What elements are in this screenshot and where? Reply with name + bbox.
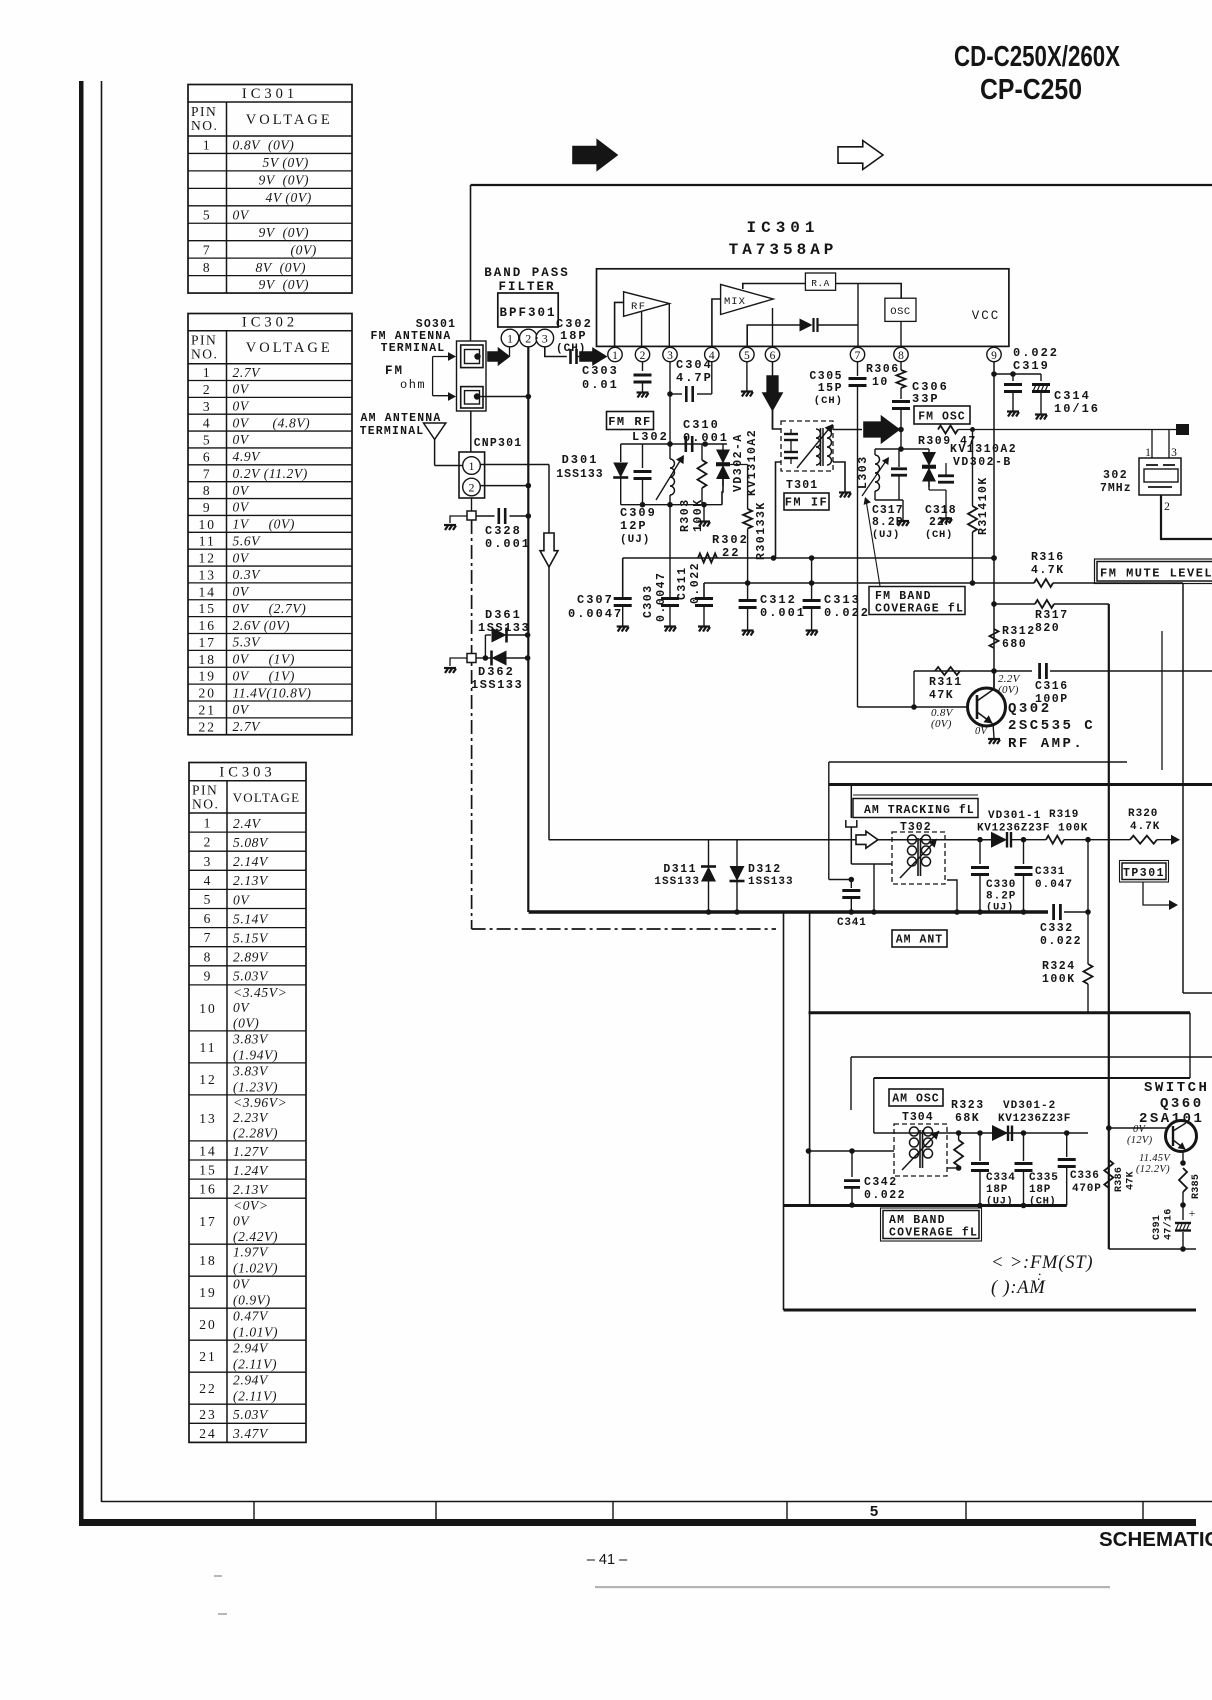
shield pad square D362 row xyxy=(467,654,476,663)
wire shield stub into T302 xyxy=(851,863,892,865)
resistor R314 xyxy=(970,427,975,432)
svg-text:0V: 0V xyxy=(233,207,250,222)
svg-text:8: 8 xyxy=(204,949,213,964)
wire FM out row y762 xyxy=(829,761,1127,763)
svg-text:R303: R303 xyxy=(679,498,692,532)
svg-text:7MHz: 7MHz xyxy=(1100,482,1132,495)
AM shield stub xyxy=(850,785,852,819)
svg-text:680: 680 xyxy=(1002,638,1027,651)
svg-text:33P: 33P xyxy=(912,392,940,406)
svg-text:47/16: 47/16 xyxy=(1163,1208,1175,1240)
svg-text:3.83V: 3.83V xyxy=(232,1063,269,1078)
svg-text:C341: C341 xyxy=(837,917,867,929)
svg-text:0V (2.7V): 0V (2.7V) xyxy=(233,601,307,616)
shield pad square C328 row xyxy=(467,511,476,520)
wire pin7 down through C305 xyxy=(857,362,859,376)
capacitor C313 xyxy=(811,558,813,599)
svg-text:2.89V: 2.89V xyxy=(233,950,269,965)
svg-text:1.97V: 1.97V xyxy=(233,1245,269,1260)
wire y762 down to AM C341 row xyxy=(828,762,830,880)
svg-text:24: 24 xyxy=(199,1426,217,1441)
svg-text:C335: C335 xyxy=(1029,1172,1059,1184)
svg-text:FM MUTE LEVEL: FM MUTE LEVEL xyxy=(1100,567,1212,581)
svg-text:0.022: 0.022 xyxy=(1013,346,1059,360)
AM OSC label box xyxy=(889,1089,943,1106)
svg-text:8.2P: 8.2P xyxy=(872,516,904,529)
resistor R306 on pin8 xyxy=(900,362,902,370)
AM OSC outer box lines xyxy=(851,1056,1212,1058)
svg-text:10: 10 xyxy=(199,1001,217,1016)
resistor R317 xyxy=(994,603,1035,605)
resistor R301 xyxy=(747,465,749,510)
wire T301 right to ground xyxy=(833,462,845,492)
wire CNP301 pin1 to AM drop line xyxy=(480,464,549,466)
dash-dot shield line horizontal xyxy=(472,928,776,930)
resistor R386 xyxy=(1104,1160,1113,1188)
FM antenna connector jack 1 xyxy=(461,345,483,368)
transistor Q360 xyxy=(1166,1121,1197,1152)
svg-text:14: 14 xyxy=(199,1143,217,1158)
svg-text:2.13V: 2.13V xyxy=(233,1182,269,1197)
svg-text:6: 6 xyxy=(770,350,776,362)
svg-text:0V: 0V xyxy=(233,483,250,498)
svg-text:0.022: 0.022 xyxy=(689,562,702,604)
capacitor C330 xyxy=(979,840,981,864)
svg-text:2.6V (0V): 2.6V (0V) xyxy=(233,618,291,633)
svg-text:9: 9 xyxy=(204,968,213,983)
svg-text:1SS133: 1SS133 xyxy=(748,876,794,888)
svg-text:C304: C304 xyxy=(676,358,713,372)
svg-text:5: 5 xyxy=(203,433,212,448)
arrow FM jack1 to BPF pin1 xyxy=(488,349,509,365)
leader TP301 to rail xyxy=(1143,882,1172,905)
capacitor C341 xyxy=(850,880,852,889)
svg-text:1.24V: 1.24V xyxy=(233,1163,269,1178)
svg-text:Q360: Q360 xyxy=(1160,1096,1204,1112)
svg-text:11: 11 xyxy=(199,534,216,549)
svg-text:1SS133: 1SS133 xyxy=(471,678,523,692)
svg-text:R30133K: R30133K xyxy=(755,501,768,560)
schematic bottom boundary xyxy=(784,1309,1197,1312)
svg-text:7: 7 xyxy=(203,466,212,481)
wire Q302 emitter to ground xyxy=(993,723,994,738)
svg-text:0V: 0V xyxy=(233,500,250,515)
svg-text:3.83V: 3.83V xyxy=(232,1031,269,1046)
wire pin3 down xyxy=(669,362,671,444)
FM MUTE LEVEL label box xyxy=(1097,562,1212,582)
svg-text:100K: 100K xyxy=(692,498,705,532)
svg-text:9V (0V): 9V (0V) xyxy=(259,173,310,188)
AM block bottom boundary xyxy=(809,1011,1191,1014)
svg-text:(0V): (0V) xyxy=(233,1016,259,1031)
svg-text:C342: C342 xyxy=(864,1176,898,1189)
svg-text:TP301: TP301 xyxy=(1123,867,1165,880)
svg-text:CD-C250X/260X: CD-C250X/260X xyxy=(954,41,1121,73)
svg-text:CP-C250: CP-C250 xyxy=(980,74,1082,106)
svg-text:0V: 0V xyxy=(233,702,250,717)
svg-text:RF: RF xyxy=(631,301,647,313)
op-amp RF block inside IC301 xyxy=(624,292,670,317)
svg-text:13: 13 xyxy=(199,567,217,582)
wire FM connector to CNP301 xyxy=(470,411,472,452)
switch bottom wire xyxy=(1109,1248,1196,1250)
svg-text:C313: C313 xyxy=(824,593,861,607)
ground at C328 pad xyxy=(444,525,456,530)
svg-text:470P: 470P xyxy=(1072,1183,1102,1195)
wire T304 output row xyxy=(874,1132,959,1134)
svg-text:R31410K: R31410K xyxy=(977,476,990,535)
page border thick bottom xyxy=(79,1519,1196,1526)
svg-text:0V: 0V xyxy=(233,398,250,413)
svg-text:1: 1 xyxy=(507,332,513,346)
wire R385 to C391 xyxy=(1182,1192,1184,1205)
svg-text:23: 23 xyxy=(199,1407,217,1422)
svg-text:T304: T304 xyxy=(902,1111,934,1124)
svg-text:IC303: IC303 xyxy=(219,765,275,781)
capacitor C302 xyxy=(571,349,577,364)
AM block top boundary xyxy=(829,783,1212,786)
svg-text:VCC: VCC xyxy=(972,309,1001,323)
svg-text:20: 20 xyxy=(199,686,217,701)
svg-text:5V (0V): 5V (0V) xyxy=(263,155,309,170)
ground at D362 pad xyxy=(444,668,456,673)
svg-text:R319: R319 xyxy=(1049,809,1079,821)
diode D311 xyxy=(708,840,710,867)
tuner block top boundary line xyxy=(471,184,1212,186)
svg-text:FM: FM xyxy=(385,364,404,378)
svg-text:4.7K: 4.7K xyxy=(1031,564,1065,577)
svg-text:9V (0V): 9V (0V) xyxy=(259,277,310,292)
svg-text:100P: 100P xyxy=(1035,693,1069,706)
svg-text:12P: 12P xyxy=(620,519,648,533)
svg-text:16: 16 xyxy=(199,1182,217,1197)
wire Q360 collector chain xyxy=(1182,1152,1184,1163)
svg-text:C309: C309 xyxy=(620,506,657,520)
capacitor C391 electrolytic xyxy=(1182,1205,1184,1220)
svg-text:9: 9 xyxy=(203,500,212,515)
svg-text:(1.23V): (1.23V) xyxy=(233,1079,278,1094)
AM TRACKING fL label box xyxy=(853,799,978,818)
svg-text:5.14V: 5.14V xyxy=(233,911,269,926)
varactor diode VD301-2 xyxy=(992,1125,1008,1141)
svg-text:VOLTAGE: VOLTAGE xyxy=(246,340,333,356)
svg-text:15P: 15P xyxy=(818,382,843,395)
svg-text:– 41 –: – 41 – xyxy=(587,1552,628,1568)
AM OSC ground rail xyxy=(784,1204,1067,1207)
svg-text:3: 3 xyxy=(1171,447,1177,459)
wire main line y558 xyxy=(623,557,994,559)
capacitor C332 series xyxy=(1054,904,1061,920)
svg-text:0V (1V): 0V (1V) xyxy=(233,668,295,683)
svg-text:AM BAND: AM BAND xyxy=(889,1214,946,1227)
capacitor C317 xyxy=(898,449,900,467)
svg-text:L303: L303 xyxy=(857,455,870,489)
junction y558 y583 on pin9 rail xyxy=(991,555,997,561)
resistor R309 xyxy=(938,426,958,434)
svg-text:22P: 22P xyxy=(929,516,953,529)
svg-text:2.14V: 2.14V xyxy=(233,854,269,869)
svg-text:6: 6 xyxy=(204,911,213,926)
capacitor C331 xyxy=(1023,840,1025,864)
svg-text:47K: 47K xyxy=(929,689,954,702)
wire pin9 down xyxy=(993,362,995,688)
svg-text:IC302: IC302 xyxy=(242,315,298,331)
svg-text:0.0047: 0.0047 xyxy=(655,572,668,622)
svg-text:0V: 0V xyxy=(233,1277,250,1292)
svg-text:T302: T302 xyxy=(900,821,932,834)
wire AGC line y583 xyxy=(704,582,1034,584)
resistor R324 xyxy=(1084,964,1093,984)
wire VD301-1 to R319 xyxy=(1011,839,1046,841)
wire pin5 to ground xyxy=(746,362,748,391)
wire pin5 to internal diode xyxy=(747,325,801,347)
svg-text:VD301-1: VD301-1 xyxy=(988,810,1041,822)
wire T302 left tap to rail xyxy=(873,864,875,912)
svg-text:CNP301: CNP301 xyxy=(474,437,523,450)
svg-text:OSC: OSC xyxy=(890,306,910,318)
op-amp MIX block inside IC301 xyxy=(721,284,774,314)
svg-text:IC301: IC301 xyxy=(746,219,819,237)
page border thin bottom xyxy=(102,1501,1212,1503)
wire antenna to CNP301 pin1 xyxy=(435,465,463,467)
svg-text:BPF301: BPF301 xyxy=(499,306,556,320)
FM IF label box xyxy=(784,493,829,510)
svg-text:C336: C336 xyxy=(1070,1170,1100,1182)
svg-text:<3.96V>: <3.96V> xyxy=(233,1095,287,1110)
svg-text:C391: C391 xyxy=(1152,1215,1163,1240)
svg-text:18: 18 xyxy=(199,1253,217,1268)
svg-text:VD302-A: VD302-A xyxy=(732,433,745,492)
svg-text:22: 22 xyxy=(199,719,217,734)
svg-text:5.08V: 5.08V xyxy=(233,835,269,850)
FM BAND COVERAGE label box xyxy=(869,587,965,615)
svg-text:(2.42V): (2.42V) xyxy=(233,1229,278,1244)
diode D312 xyxy=(736,840,738,866)
svg-text:KV1236Z23F: KV1236Z23F xyxy=(977,823,1050,835)
svg-text:L302: L302 xyxy=(632,430,669,444)
svg-text:0V: 0V xyxy=(1133,1124,1147,1135)
svg-text:22: 22 xyxy=(722,546,740,560)
capacitor C312 xyxy=(747,583,749,599)
wire Q302 collector xyxy=(993,671,995,690)
svg-text:302: 302 xyxy=(1103,469,1128,482)
voltage table IC303 frame xyxy=(189,763,306,1443)
svg-text:2: 2 xyxy=(525,332,531,346)
wire R319 junction down xyxy=(1087,840,1089,964)
wire pin2 to RF bottom xyxy=(641,312,643,347)
svg-text:(2.11V): (2.11V) xyxy=(233,1389,277,1404)
band pass filter BPF301 xyxy=(498,293,558,327)
svg-text:2.94V: 2.94V xyxy=(233,1341,269,1356)
svg-text:VD301-2: VD301-2 xyxy=(1003,1100,1056,1112)
capacitor C307 xyxy=(622,558,624,597)
svg-text:68K: 68K xyxy=(955,1112,980,1125)
svg-text:4V (0V): 4V (0V) xyxy=(266,190,312,205)
svg-text:47K: 47K xyxy=(1126,1171,1137,1190)
wire FM RF tank top xyxy=(621,443,727,445)
varactor VD302-A xyxy=(722,444,724,450)
svg-text:1: 1 xyxy=(469,459,475,473)
wire pin6 down with solid arrow xyxy=(772,362,774,429)
svg-text:IC301: IC301 xyxy=(242,86,298,102)
svg-text:1V (0V): 1V (0V) xyxy=(233,517,295,532)
wire R.A to OSC and pin7 riser xyxy=(836,284,902,299)
ground FM tank xyxy=(703,505,705,521)
footer scan noise line xyxy=(595,1586,1110,1588)
svg-text:NO.: NO. xyxy=(191,118,218,133)
svg-text:(12.2V): (12.2V) xyxy=(1136,1164,1170,1175)
svg-text:8: 8 xyxy=(203,260,212,275)
FM antenna connector jack 2 xyxy=(461,387,483,408)
svg-text:15: 15 xyxy=(199,601,217,616)
FM mute divider rail xyxy=(1108,604,1110,1249)
svg-text:13: 13 xyxy=(199,1111,217,1126)
svg-text:D361: D361 xyxy=(485,608,522,622)
svg-text:12: 12 xyxy=(199,1072,217,1087)
svg-text:R312: R312 xyxy=(1002,625,1036,638)
svg-text:15: 15 xyxy=(199,1163,217,1178)
wire BPF pin2 down xyxy=(527,347,529,397)
svg-text:VOLTAGE: VOLTAGE xyxy=(233,790,301,805)
svg-text:COVERAGE fL: COVERAGE fL xyxy=(889,1227,978,1240)
svg-text:5.3V: 5.3V xyxy=(233,635,262,650)
svg-text:(UJ): (UJ) xyxy=(620,534,650,546)
svg-text:4: 4 xyxy=(203,416,212,431)
wire into T304 xyxy=(809,1150,895,1152)
svg-text:19: 19 xyxy=(199,1285,217,1300)
svg-text:100K: 100K xyxy=(1042,973,1076,986)
svg-text:(CH): (CH) xyxy=(925,529,953,541)
svg-text:NO.: NO. xyxy=(191,347,218,362)
svg-text:3: 3 xyxy=(204,854,213,869)
wire pin9 stub xyxy=(993,347,995,354)
svg-text:BAND PASS: BAND PASS xyxy=(484,266,570,280)
voltage table IC301 rows xyxy=(188,152,352,154)
svg-text:18: 18 xyxy=(199,652,217,667)
resistor R302 xyxy=(698,554,717,563)
svg-text:0.47V: 0.47V xyxy=(233,1309,269,1324)
svg-text:SCHEMATIC: SCHEMATIC xyxy=(1099,1528,1212,1551)
capacitor C334 xyxy=(979,1133,981,1161)
svg-text:11.4V(10.8V): 11.4V(10.8V) xyxy=(233,685,312,700)
AM tracking drop to osc xyxy=(873,1078,875,1133)
arrow C302 to IC pin1 xyxy=(580,349,606,365)
AM left borders xyxy=(783,912,785,1310)
arrow T301 to FM OSC node xyxy=(864,417,899,443)
svg-text:C330: C330 xyxy=(986,879,1016,891)
ceramic filter CF302 7MHz xyxy=(1139,458,1181,495)
svg-text:C303: C303 xyxy=(642,584,655,618)
svg-text:3: 3 xyxy=(667,350,673,362)
svg-text:820: 820 xyxy=(1035,622,1060,635)
wire pin4 to MIX input xyxy=(712,299,721,347)
svg-text:(CH): (CH) xyxy=(814,395,843,407)
wire pad to ground D362 row xyxy=(450,658,467,666)
OSC block inside IC301 xyxy=(885,298,916,321)
test point TP301 xyxy=(1122,863,1166,880)
svg-text:(2.11V): (2.11V) xyxy=(233,1357,277,1372)
resistor R320 xyxy=(1130,836,1157,844)
page border thin left xyxy=(101,81,103,1502)
wire pin6 into T301 xyxy=(773,410,782,429)
capacitor C316 xyxy=(994,670,1032,672)
svg-text:19: 19 xyxy=(199,669,217,684)
svg-text:R323: R323 xyxy=(951,1099,985,1112)
svg-text:7: 7 xyxy=(855,350,861,362)
svg-text:5.15V: 5.15V xyxy=(233,930,269,945)
capacitor C304 pin3-pin4 xyxy=(670,393,682,395)
svg-text:0V (1V): 0V (1V) xyxy=(233,652,295,667)
svg-text:R386: R386 xyxy=(1114,1167,1125,1192)
svg-text:FM RF: FM RF xyxy=(608,415,652,429)
svg-text:+: + xyxy=(1189,1206,1196,1220)
svg-text:R317: R317 xyxy=(1035,609,1069,622)
svg-text:C334: C334 xyxy=(986,1172,1016,1184)
svg-text:21: 21 xyxy=(199,1349,217,1364)
svg-text:2: 2 xyxy=(203,382,212,397)
svg-text:COVERAGE fL: COVERAGE fL xyxy=(875,603,964,616)
svg-text:5: 5 xyxy=(744,350,750,362)
svg-text:R311: R311 xyxy=(929,676,963,689)
wire R311 row xyxy=(914,670,994,672)
svg-text:4.9V: 4.9V xyxy=(233,449,262,464)
svg-text:9V (0V): 9V (0V) xyxy=(259,225,310,240)
svg-text:0.047: 0.047 xyxy=(1035,879,1073,891)
resistor R323 xyxy=(954,1140,963,1166)
svg-text:TA7358AP: TA7358AP xyxy=(729,241,838,259)
svg-text:PIN: PIN xyxy=(192,783,218,798)
svg-text:0V: 0V xyxy=(233,1000,250,1015)
svg-text:2: 2 xyxy=(204,835,213,850)
internal diode-cap symbol xyxy=(800,319,813,332)
svg-text:17: 17 xyxy=(199,635,217,650)
svg-text:4: 4 xyxy=(204,873,213,888)
svg-text:1.27V: 1.27V xyxy=(233,1144,269,1159)
svg-text:2.94V: 2.94V xyxy=(233,1373,269,1388)
oscillator transformer T304 xyxy=(894,1124,947,1176)
svg-text:2.7V: 2.7V xyxy=(233,719,262,734)
resistor R316 xyxy=(1034,579,1053,587)
svg-text:R316: R316 xyxy=(1031,551,1065,564)
svg-text:1SS133: 1SS133 xyxy=(654,876,700,888)
wire AM signal vertical with arrow xyxy=(548,465,550,840)
svg-text:R.A: R.A xyxy=(811,278,830,289)
svg-text:SWITCH: SWITCH xyxy=(1144,1080,1209,1096)
capacitor C303b pin3 line xyxy=(669,558,671,597)
svg-text:0V: 0V xyxy=(233,432,250,447)
capacitor C318 xyxy=(928,482,930,491)
svg-text:D301: D301 xyxy=(562,453,599,467)
svg-text:PIN: PIN xyxy=(191,104,217,119)
svg-text:11.45V: 11.45V xyxy=(1139,1153,1171,1164)
svg-text:18P: 18P xyxy=(1029,1184,1051,1196)
wire FM jack2 to BPF pin2 line xyxy=(480,396,528,398)
svg-text:2.7V: 2.7V xyxy=(233,365,262,380)
resistor R303 xyxy=(701,444,703,460)
wire R311 to base node xyxy=(913,671,915,707)
svg-text:VD302-B: VD302-B xyxy=(953,456,1012,469)
capacitor C310 xyxy=(686,436,692,452)
wire T301 output to OSC node xyxy=(833,429,862,431)
wire varactor tap to R301 xyxy=(723,464,748,466)
wire pin6 to MIX output xyxy=(772,308,774,347)
AM antenna symbol xyxy=(424,423,446,439)
svg-text:0.022: 0.022 xyxy=(1040,935,1082,948)
svg-text:1: 1 xyxy=(203,138,212,153)
svg-text:AM OSC: AM OSC xyxy=(892,1093,939,1106)
svg-text:5: 5 xyxy=(203,208,212,223)
BPF301 pin circles 1 2 3 xyxy=(501,329,519,347)
